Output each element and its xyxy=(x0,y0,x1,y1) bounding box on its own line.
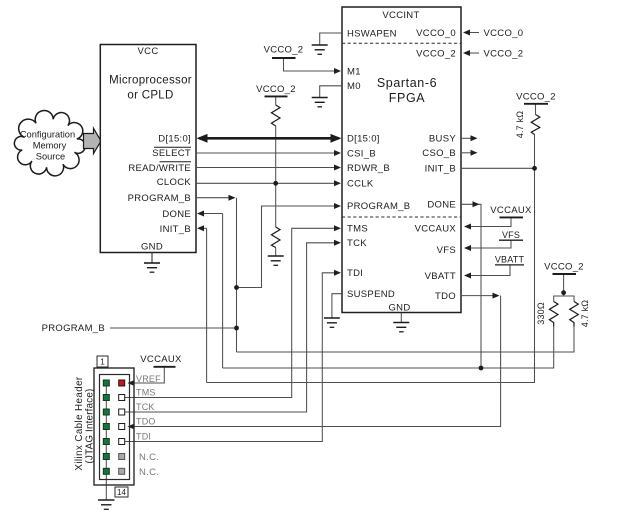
node junction dot INIT_B pull-up xyxy=(532,166,537,171)
svg-text:VCCO_0: VCCO_0 xyxy=(416,28,456,39)
node VFS net label xyxy=(499,239,523,241)
svg-text:14: 14 xyxy=(117,488,126,497)
svg-text:VCCO_2: VCCO_2 xyxy=(264,45,304,56)
power VCCAUX supply (JTAG VREF) xyxy=(154,366,176,368)
power VCCO_2 supply for INIT_B pull-up xyxy=(524,103,548,105)
arrowhead into VCCO_0 stub xyxy=(463,30,470,36)
svg-text:N.C.: N.C. xyxy=(139,467,159,478)
wire CCLK termination vertical (junction to resistor to ground) xyxy=(275,183,277,227)
pin number 1 label box xyxy=(97,356,108,367)
wire VCCO_2 stub xyxy=(466,52,479,54)
ground CCLK termination xyxy=(268,255,284,257)
svg-text:Microprocessor: Microprocessor xyxy=(109,75,192,87)
ground M0 xyxy=(312,97,328,99)
cloud Configuration Memory Source xyxy=(14,110,85,175)
wire TDI net xyxy=(125,273,338,442)
IC U1 Microprocessor or CPLD box xyxy=(100,45,196,253)
svg-text:D[15:0]: D[15:0] xyxy=(347,134,380,145)
svg-text:PROGRAM_B: PROGRAM_B xyxy=(128,193,191,204)
pin number 14 label box xyxy=(115,487,128,497)
wire CLOCK to CCLK xyxy=(196,182,338,184)
wire PROGRAM_B label stub xyxy=(110,327,237,329)
pin 14 GND square (green) xyxy=(103,468,109,474)
svg-text:(JTAG Interface): (JTAG Interface) xyxy=(85,389,96,464)
svg-text:VCCAUX: VCCAUX xyxy=(140,354,182,365)
wire JTAG ground bus xyxy=(105,383,107,480)
svg-text:VFS: VFS xyxy=(502,230,520,240)
wire microprocessor PROGRAM_B to vertical xyxy=(196,197,233,199)
svg-text:VBATT: VBATT xyxy=(425,271,456,282)
wire microprocessor DONE horizontal xyxy=(200,213,223,215)
wire SELECT to CSI_B xyxy=(196,152,338,154)
resistor 4.7 kohm PROGRAM_B pull-up xyxy=(570,302,579,327)
wire READ/WRITE to RDWR_B xyxy=(196,167,338,169)
svg-text:CSI_B: CSI_B xyxy=(347,148,376,159)
power VCCAUX supply (FPGA right) xyxy=(500,216,524,218)
svg-text:CCLK: CCLK xyxy=(347,179,374,190)
block arrow from cloud to microprocessor xyxy=(84,128,102,153)
svg-text:GND: GND xyxy=(388,302,410,313)
svg-text:VCCINT: VCCINT xyxy=(382,10,419,21)
wire DONE vertical from microprocessor xyxy=(222,214,224,369)
wire FPGA GND to ground xyxy=(400,313,402,323)
pin 5 TCK square xyxy=(119,409,125,415)
svg-text:INIT_B: INIT_B xyxy=(425,164,456,175)
svg-text:BUSY: BUSY xyxy=(429,134,456,145)
wire microprocessor INIT_B horizontal xyxy=(200,227,207,229)
svg-text:1: 1 xyxy=(100,358,105,367)
svg-text:PROGRAM_B: PROGRAM_B xyxy=(42,323,105,334)
wire SUSPEND to ground xyxy=(332,294,342,318)
node junction dot CCLK termination xyxy=(273,181,278,186)
node junction dot PROGRAM_B label xyxy=(234,326,239,331)
wire VBATT label stub to pin xyxy=(467,265,510,276)
arrowhead into VCCAUX pin xyxy=(464,224,471,230)
pin 12 GND square (green) xyxy=(103,454,109,460)
wire PROGRAM_B bottom net to 4.7k pull-up xyxy=(237,327,575,353)
ground FPGA GND xyxy=(393,322,409,324)
svg-text:PROGRAM_B: PROGRAM_B xyxy=(347,201,410,212)
pin 4 GND square (green) xyxy=(103,395,109,401)
resistor 4.7 kohm INIT_B pull-up xyxy=(531,115,540,135)
svg-text:DONE: DONE xyxy=(162,209,191,220)
node bank separator dashed line (top) xyxy=(342,42,461,44)
svg-text:VBATT: VBATT xyxy=(495,255,525,265)
svg-text:Memory: Memory xyxy=(33,141,67,151)
arrowhead into JTAG TDO pin xyxy=(128,424,135,430)
svg-text:Source: Source xyxy=(36,152,65,162)
connector J1 inner box xyxy=(100,375,130,480)
arrowhead into RDWR_B xyxy=(334,165,341,171)
wire CSO_B stub xyxy=(461,152,471,154)
resistor CCLK pull-up xyxy=(271,105,280,126)
svg-text:VCCO_2: VCCO_2 xyxy=(416,48,456,59)
wire HSWAPEN to ground xyxy=(320,33,342,45)
svg-text:CLOCK: CLOCK xyxy=(157,177,192,188)
arrowhead into VFS pin xyxy=(464,245,471,251)
svg-text:or CPLD: or CPLD xyxy=(127,90,173,102)
svg-text:GND: GND xyxy=(141,242,163,253)
svg-text:Configuration: Configuration xyxy=(20,130,75,140)
node junction dot PROGRAM_B jog xyxy=(234,285,239,290)
ground HSWAPEN xyxy=(312,44,328,46)
svg-text:READ/WRITE: READ/WRITE xyxy=(128,163,191,174)
power VCCO_2 supply for CCLK pull-up xyxy=(265,95,288,97)
arrowhead into M1 xyxy=(334,68,341,74)
svg-text:VREF: VREF xyxy=(136,374,161,384)
arrowhead into FPGA PROGRAM_B xyxy=(334,203,341,209)
node VBATT net label xyxy=(495,264,524,266)
svg-text:VCCAUX: VCCAUX xyxy=(490,205,532,216)
node junction dot VCCO_2 resistor pair xyxy=(561,290,566,295)
svg-text:TCK: TCK xyxy=(136,402,155,412)
svg-text:FPGA: FPGA xyxy=(389,91,425,105)
pin 9 TDI square xyxy=(119,439,125,445)
svg-text:VCCO_2: VCCO_2 xyxy=(516,91,556,102)
svg-text:Xilinx Cable Header: Xilinx Cable Header xyxy=(74,376,85,471)
power VCCO_2 supply for 330/4.7k pull-ups xyxy=(553,273,577,275)
IC U2 Spartan-6 FPGA box xyxy=(342,7,461,313)
svg-text:RDWR_B: RDWR_B xyxy=(347,163,390,174)
svg-text:HSWAPEN: HSWAPEN xyxy=(347,28,397,39)
wire FPGA INIT_B out to pull-up junction xyxy=(461,167,535,169)
arrowhead into microprocessor INIT_B xyxy=(197,225,204,231)
wire TCK net xyxy=(125,243,338,412)
pin 2 GND square (green) xyxy=(103,380,109,386)
arrowhead CSO_B out xyxy=(471,150,478,156)
wire INIT_B vertical from microprocessor xyxy=(206,228,208,382)
arrowhead into FPGA TCK xyxy=(334,240,341,246)
pin 1 VREF square (red) xyxy=(119,380,125,386)
wire VCCAUX (JTAG) to VREF pin xyxy=(128,367,164,383)
svg-text:4.7 kΩ: 4.7 kΩ xyxy=(515,111,525,139)
svg-text:TDI: TDI xyxy=(347,268,363,279)
svg-text:INIT_B: INIT_B xyxy=(160,224,191,235)
svg-text:M1: M1 xyxy=(347,66,361,77)
svg-text:SUSPEND: SUSPEND xyxy=(347,289,395,300)
wire VCCO_2 stem to 330/4.7k resistors xyxy=(563,274,565,292)
svg-text:TCK: TCK xyxy=(347,238,367,249)
node junction dot DONE net xyxy=(479,366,484,371)
pin 10 GND square (green) xyxy=(103,439,109,445)
svg-text:VCCO_2: VCCO_2 xyxy=(484,48,524,59)
svg-text:TMS: TMS xyxy=(136,388,156,398)
svg-text:VFS: VFS xyxy=(437,245,456,256)
arrowhead into CSI_B xyxy=(334,150,341,156)
wire BUSY stub xyxy=(461,137,471,139)
wire VCCO_0 stub xyxy=(466,32,479,34)
pin 11 N.C. square xyxy=(119,454,125,460)
wire TDO net xyxy=(461,295,497,297)
pin 8 GND square (green) xyxy=(103,424,109,430)
svg-text:M0: M0 xyxy=(347,81,361,92)
svg-text:SELECT: SELECT xyxy=(152,148,191,159)
svg-text:CSO_B: CSO_B xyxy=(422,148,456,159)
arrowhead into VCCO_2 stub xyxy=(463,50,470,56)
svg-text:Spartan-6: Spartan-6 xyxy=(377,76,437,90)
svg-text:VCCO_2: VCCO_2 xyxy=(544,261,584,272)
svg-text:TMS: TMS xyxy=(347,224,368,235)
wire PROGRAM_B jog to FPGA PROGRAM_B xyxy=(237,206,339,288)
svg-text:TDI: TDI xyxy=(136,432,151,442)
pin 7 TDO square xyxy=(119,424,125,430)
bus D[15:0] microprocessor to FPGA xyxy=(199,137,339,140)
wire INIT_B bottom net xyxy=(207,168,535,382)
arrowhead into VBATT pin xyxy=(464,273,471,279)
arrowhead FPGA TDO out xyxy=(493,293,500,299)
svg-text:D[15:0]: D[15:0] xyxy=(158,134,191,145)
ground SUSPEND xyxy=(324,317,340,319)
arrowhead into FPGA TMS xyxy=(334,225,341,231)
arrowhead FPGA DONE out xyxy=(473,201,480,207)
arrowhead into FPGA TDI xyxy=(334,270,341,276)
svg-text:VCCAUX: VCCAUX xyxy=(415,223,457,234)
resistor 330 ohm DONE pull-up xyxy=(549,302,558,327)
arrowhead BUSY out xyxy=(471,135,478,141)
svg-text:TDO: TDO xyxy=(136,417,156,427)
pin 3 TMS square xyxy=(119,395,125,401)
wire VFS label stub to pin xyxy=(467,240,511,248)
wire PROGRAM_B vertical net xyxy=(236,198,238,352)
resistor CCLK termination xyxy=(271,227,280,248)
wire FPGA DONE out and down xyxy=(461,204,481,368)
wire M0 to ground xyxy=(320,86,342,98)
svg-text:VCCO_0: VCCO_0 xyxy=(484,28,524,39)
connector J1 Xilinx cable header outer box xyxy=(94,368,134,485)
wire M1 from VCCO_2 supply xyxy=(284,59,340,72)
svg-text:330Ω: 330Ω xyxy=(536,302,546,325)
wire INIT_B 4.7k pull-up to VCCO_2 xyxy=(534,135,536,169)
arrowhead into microprocessor DONE xyxy=(197,211,204,217)
svg-text:VCC: VCC xyxy=(138,46,159,57)
svg-text:N.C.: N.C. xyxy=(139,452,159,463)
wire DONE bottom net to 330 ohm pull-up xyxy=(223,327,554,369)
pin 6 GND square (green) xyxy=(103,409,109,415)
arrowhead into VREF pin xyxy=(128,380,135,386)
ground microprocessor GND xyxy=(151,253,153,264)
power VCCO_2 supply for M1 xyxy=(272,57,296,59)
wire CCLK pull-up vertical (VCCO_2 bar to resistor to junction) xyxy=(275,97,277,105)
wire TMS net xyxy=(125,228,338,397)
svg-text:TDO: TDO xyxy=(435,291,456,302)
svg-text:4.7 kΩ: 4.7 kΩ xyxy=(580,300,590,328)
svg-text:DONE: DONE xyxy=(427,200,456,211)
arrowhead into CCLK xyxy=(334,180,341,186)
wire VCCAUX supply to pin xyxy=(467,218,511,227)
svg-text:VCCO_2: VCCO_2 xyxy=(256,84,296,95)
ground JTAG header xyxy=(98,499,115,501)
arrowhead microprocessor PROGRAM_B junction xyxy=(229,195,236,201)
node bank separator dashed line (bottom) xyxy=(342,216,461,218)
pin 13 N.C. square xyxy=(119,468,125,474)
